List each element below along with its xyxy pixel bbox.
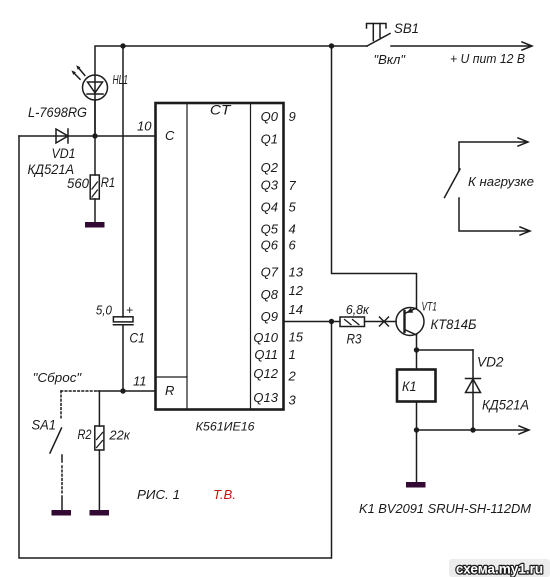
wire R1 to ground	[94, 199, 96, 222]
ground R1	[85, 222, 105, 228]
node junction C1/R row	[120, 388, 125, 393]
wire feedback loop	[19, 136, 332, 558]
svg-text:Q3: Q3	[261, 178, 279, 193]
wire +12V after switch	[391, 45, 531, 47]
svg-text:R: R	[165, 383, 174, 398]
svg-text:"Сброс": "Сброс"	[33, 370, 83, 385]
wire R3 to base	[365, 321, 397, 323]
diode VD1	[56, 129, 68, 143]
svg-text:VD2: VD2	[477, 355, 504, 370]
svg-text:К561ИЕ16: К561ИЕ16	[196, 420, 255, 434]
svg-text:Q10: Q10	[253, 330, 278, 345]
wire collector to VD2	[417, 349, 474, 351]
transistor VT1	[396, 308, 424, 336]
svg-text:22к: 22к	[108, 428, 130, 443]
svg-text:Q4: Q4	[261, 200, 278, 215]
LED HL1	[71, 65, 107, 100]
arrow relay bottom	[519, 426, 529, 434]
wire node to R1	[94, 136, 96, 175]
ground SA1	[52, 510, 72, 516]
svg-text:Q9: Q9	[261, 309, 278, 324]
svg-text:+ U пит 12 В: + U пит 12 В	[450, 51, 525, 66]
svg-text:КТ814Б: КТ814Б	[431, 317, 477, 332]
wire dashed to SA1	[61, 390, 98, 392]
svg-text:6: 6	[289, 238, 297, 253]
node junction Q9/feedback	[329, 319, 334, 324]
svg-text:5: 5	[289, 200, 297, 215]
svg-text:R2: R2	[78, 427, 92, 442]
svg-text:R3: R3	[347, 332, 362, 347]
node junction top-left	[120, 43, 125, 48]
X mark on base wire	[380, 317, 389, 326]
svg-text:1: 1	[289, 347, 296, 362]
wire collector down	[416, 335, 418, 370]
wire relay to ground	[416, 430, 418, 482]
arrow +12V	[522, 42, 532, 50]
wire emitter feed	[332, 46, 417, 309]
svg-text:4: 4	[289, 222, 296, 237]
wire C1 to R row	[122, 325, 124, 391]
node junction top emitter feed	[329, 43, 334, 48]
switch SA1	[50, 391, 62, 510]
svg-text:Q7: Q7	[261, 265, 279, 280]
wire R input row	[98, 390, 156, 392]
relay contact bottom arm	[459, 198, 529, 231]
svg-text:Q0: Q0	[261, 109, 279, 124]
capacitor C1	[113, 317, 133, 325]
svg-text:К1: К1	[402, 379, 417, 394]
wire C1 feed vertical	[122, 46, 124, 317]
svg-text:Q11: Q11	[254, 347, 278, 362]
svg-text:C: C	[165, 128, 175, 143]
svg-text:10: 10	[137, 119, 152, 134]
svg-text:Т.В.: Т.В.	[213, 487, 236, 502]
svg-text:3: 3	[289, 393, 297, 408]
wire Q9 output	[284, 321, 341, 323]
svg-text:РИС. 1: РИС. 1	[137, 487, 180, 502]
node junction relay bottom	[414, 427, 419, 432]
svg-text:Q6: Q6	[261, 238, 279, 253]
wire LED to VD1 node	[94, 100, 96, 136]
svg-text:VT1: VT1	[422, 300, 438, 314]
svg-text:560: 560	[67, 176, 89, 191]
svg-text:Q1: Q1	[261, 132, 278, 147]
resistor R3	[340, 317, 365, 327]
svg-text:Q13: Q13	[253, 390, 278, 405]
svg-text:R1: R1	[101, 175, 116, 190]
svg-text:+: +	[126, 303, 133, 317]
arrow load bottom	[520, 227, 530, 235]
ground R2	[90, 510, 110, 516]
IC divider left column	[186, 103, 188, 410]
svg-text:HL1: HL1	[113, 73, 129, 87]
switch SB1	[367, 24, 391, 47]
svg-text:Q5: Q5	[261, 222, 279, 237]
svg-text:2: 2	[288, 369, 297, 384]
watermark badge	[449, 559, 550, 577]
IC U1 K561IE16 body	[156, 103, 284, 410]
svg-text:Q2: Q2	[261, 160, 279, 175]
svg-text:"Вкл": "Вкл"	[374, 52, 407, 67]
svg-text:Q12: Q12	[253, 366, 278, 381]
relay contact to load top arm	[459, 142, 527, 170]
svg-text:5,0: 5,0	[96, 303, 113, 318]
svg-text:VD1: VD1	[52, 146, 76, 161]
arrow load top	[518, 138, 528, 146]
resistor R2	[95, 391, 104, 510]
wire relay bottom row	[417, 402, 529, 431]
wire C input row	[19, 135, 156, 137]
ground relay	[406, 482, 426, 488]
svg-text:15: 15	[289, 330, 304, 345]
svg-text:6,8к: 6,8к	[346, 302, 370, 317]
svg-text:L-7698RG: L-7698RG	[28, 104, 87, 120]
wire top +12V rail from LED to SB1	[95, 46, 367, 136]
IC divider Q column	[250, 103, 252, 410]
relay contact blade	[445, 169, 461, 198]
svg-text:Q8: Q8	[261, 287, 279, 302]
svg-text:12: 12	[289, 283, 304, 298]
svg-text:К нагрузке: К нагрузке	[468, 174, 534, 189]
resistor R1	[90, 175, 99, 199]
svg-text:14: 14	[289, 302, 303, 317]
svg-text:SB1: SB1	[394, 21, 419, 36]
svg-text:7: 7	[289, 178, 297, 193]
svg-text:13: 13	[289, 265, 304, 280]
relay K1 coil	[397, 370, 436, 402]
svg-text:КД521А: КД521А	[482, 398, 529, 413]
svg-text:SA1: SA1	[32, 418, 57, 433]
svg-text:КД521А: КД521А	[28, 161, 75, 177]
svg-text:CT: CT	[210, 102, 232, 118]
node junction collector	[414, 347, 419, 352]
diode VD2	[466, 350, 481, 430]
node junction VD2 bottom	[470, 427, 475, 432]
svg-text:схема.my1.ru: схема.my1.ru	[456, 562, 543, 577]
svg-text:11: 11	[133, 374, 147, 389]
IC R box line	[156, 376, 188, 378]
node junction LED/VD1	[92, 133, 97, 138]
svg-text:9: 9	[289, 109, 296, 124]
svg-text:C1: C1	[129, 331, 145, 346]
svg-text:K1 BV2091 SRUH-SH-112DM: K1 BV2091 SRUH-SH-112DM	[359, 501, 531, 516]
